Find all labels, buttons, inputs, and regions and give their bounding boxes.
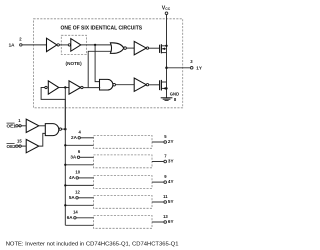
wire enable bus tap to channel 4	[65, 184, 93, 186]
channel 5 identical-circuit dashed box	[94, 195, 153, 208]
output terminal 4Y pin 9	[164, 181, 167, 184]
svg-text:9: 9	[164, 174, 167, 179]
wire OE2 to inverter	[17, 145, 20, 147]
wire box to output terminal 4Y	[152, 181, 164, 183]
wire 2A input to box	[80, 137, 93, 139]
inverter A2 (NOTE, input bubble)	[68, 44, 70, 46]
wire data node to NOR upper input	[81, 44, 112, 46]
wire A1 to NOTE inverter A2	[59, 44, 68, 46]
wire 6A input to box	[76, 217, 93, 219]
svg-text:4A: 4A	[69, 175, 76, 180]
svg-text:12: 12	[75, 190, 80, 195]
svg-text:GND: GND	[170, 92, 179, 97]
VCC terminal	[165, 12, 168, 15]
svg-text:1: 1	[18, 118, 21, 123]
wire N source to ground	[166, 88, 168, 97]
NOR gate U1	[110, 43, 124, 54]
inverter U4 (N-gate driver)	[134, 78, 146, 91]
input terminal OE1 pin 1	[7, 118, 22, 129]
wire enable bus tap to channel 2	[65, 144, 93, 146]
wire to P-MOSFET gate	[149, 47, 159, 49]
wire output node to 1Y terminal	[167, 67, 191, 69]
NOTE inverter dashed box	[61, 35, 86, 54]
svg-text:6: 6	[78, 149, 81, 154]
wire box to output terminal 6Y	[152, 221, 164, 223]
wire enable bus tap to channel 5	[65, 204, 93, 206]
junction on enable bus (channel 4)	[64, 184, 66, 186]
input terminal 2A pin 4	[78, 137, 80, 139]
wire E1 to E2	[59, 87, 69, 89]
svg-text:7: 7	[164, 153, 167, 158]
svg-text:10: 10	[75, 170, 80, 175]
svg-text:2Y: 2Y	[168, 139, 174, 144]
svg-text:6Y: 6Y	[168, 219, 174, 224]
wire data node down to NAND U3 upper input	[95, 45, 100, 82]
junction on enable bus (channel 3)	[64, 164, 66, 166]
wire G2 to NAND G3 lower input	[21, 145, 26, 147]
wire NAND U3 to inverter U4	[116, 84, 135, 86]
svg-text:1Y: 1Y	[196, 66, 202, 71]
wire E2 to NAND U3 lower input	[83, 87, 100, 89]
input terminal 5A pin 12	[76, 197, 78, 199]
svg-text:4Y: 4Y	[168, 179, 174, 184]
junction dot enable node	[64, 86, 66, 88]
svg-text:3A: 3A	[70, 155, 77, 160]
junction dot G3 output on bus	[64, 128, 67, 131]
wire G1 to NAND G3 upper input	[21, 125, 26, 127]
wire enable node up to NOR lower input	[88, 51, 111, 87]
svg-text:5A: 5A	[69, 195, 76, 200]
NAND gate G3 (output enable)	[45, 124, 59, 136]
inverter U2 (P-gate driver)	[134, 41, 146, 54]
wire output rail (P drain to N drain)	[166, 46, 168, 89]
wire enable feed (bus to inverter E1)	[41, 88, 65, 129]
junction dot output node 1Y	[165, 67, 168, 70]
svg-text:5Y: 5Y	[168, 199, 174, 204]
wire 4A input to box	[78, 177, 93, 179]
NAND gate U3	[100, 79, 113, 90]
channel 6 identical-circuit dashed box	[94, 215, 153, 228]
svg-text:OE2: OE2	[7, 144, 17, 149]
svg-text:CC: CC	[165, 7, 170, 11]
svg-text:3: 3	[190, 59, 193, 64]
svg-text:(NOTE): (NOTE)	[66, 61, 83, 66]
wire enable bus tap to channel 6	[65, 224, 93, 226]
wire G3 to enable bus	[62, 128, 66, 130]
inverter E2	[69, 81, 81, 94]
svg-text:2A: 2A	[71, 135, 78, 140]
svg-text:14: 14	[73, 210, 78, 215]
wire enable bus vertical	[64, 88, 66, 226]
wire box to output terminal 5Y	[152, 201, 164, 203]
VCC label	[162, 5, 171, 11]
svg-text:2: 2	[19, 37, 22, 42]
svg-text:OE1: OE1	[7, 124, 17, 129]
output terminal 3Y pin 7	[164, 160, 167, 163]
inverter G2 (input bubble)	[19, 145, 21, 147]
svg-text:15: 15	[17, 138, 22, 143]
svg-text:ONE OF SIX IDENTICAL CIRCUITS: ONE OF SIX IDENTICAL CIRCUITS	[61, 26, 143, 32]
svg-text:8: 8	[174, 97, 177, 102]
wire box to output terminal 3Y	[152, 161, 164, 163]
channel 2 identical-circuit dashed box	[94, 135, 153, 148]
input terminal 6A pin 14	[74, 217, 76, 219]
wire 5A input to box	[78, 197, 93, 199]
one-of-six-identical-circuits outer dashed box	[34, 19, 183, 108]
wire NOR to inverter U2	[126, 47, 134, 49]
junction on enable bus (channel 2)	[64, 144, 66, 146]
input terminal OE2 pin 15	[7, 138, 23, 149]
output terminal 1Y pin 3	[190, 67, 193, 70]
inverter E1 (input bubble)	[45, 86, 47, 88]
junction dot data node	[94, 44, 96, 46]
wire 1A to inverter A1	[22, 44, 46, 46]
wire VCC rail	[166, 15, 168, 46]
wire OE1 to inverter	[17, 125, 20, 127]
wire 3A input to box	[80, 156, 94, 158]
svg-text:4: 4	[79, 130, 82, 135]
output terminal 2Y pin 5	[164, 141, 167, 144]
ground symbol GND pin 8	[161, 97, 173, 99]
N-MOSFET Q2	[159, 80, 161, 90]
channel 3 identical-circuit dashed box	[94, 155, 153, 168]
input terminal 4A pin 10	[76, 177, 78, 179]
wire box to output terminal 2Y	[152, 141, 164, 143]
input terminal 3A pin 6	[77, 156, 79, 158]
svg-text:5: 5	[164, 134, 167, 139]
channel 4 identical-circuit dashed box	[94, 176, 153, 189]
output terminal 5Y pin 11	[164, 201, 167, 204]
svg-text:1A: 1A	[9, 43, 16, 48]
inverter G1 (input bubble)	[19, 125, 21, 127]
svg-text:NOTE: Inverter not included in: NOTE: Inverter not included in CD74HC365…	[6, 241, 179, 247]
svg-text:6A: 6A	[67, 215, 74, 220]
junction on enable bus (channel 5)	[64, 204, 66, 206]
output terminal 6Y pin 13	[164, 221, 167, 224]
P-MOSFET Q1	[159, 45, 161, 53]
wire to N-MOSFET gate	[149, 84, 159, 86]
wire enable bus tap to channel 3	[65, 164, 93, 166]
svg-text:3Y: 3Y	[168, 158, 174, 163]
inverter A1	[47, 38, 57, 51]
